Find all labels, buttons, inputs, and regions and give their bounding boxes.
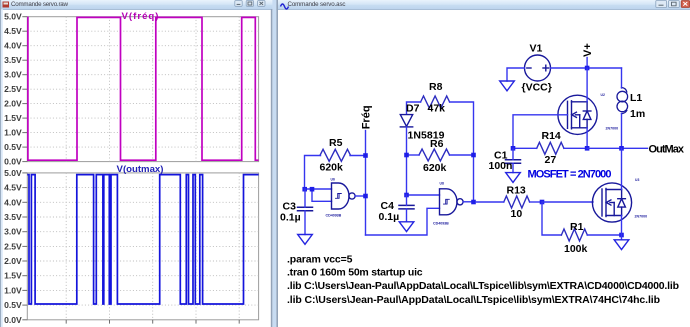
wire: C4 node to gate2 input — [407, 194, 440, 196]
junction C4 node — [404, 193, 409, 198]
pane 2 x axis ticks — [66, 320, 239, 324]
junction R6 right — [471, 153, 476, 158]
svg-text:1.0V: 1.0V — [4, 285, 22, 295]
op-amp U8 nand gate CD4093B — [440, 189, 464, 215]
wire: down to R1 — [542, 202, 561, 235]
diode D7 1N5819 — [400, 115, 412, 127]
junction C1/R14 — [511, 146, 516, 151]
junction R1/source — [619, 233, 624, 238]
svg-text:2.5V: 2.5V — [4, 241, 22, 251]
wire: R13 left lead — [476, 201, 504, 203]
svg-text:2.0V: 2.0V — [4, 99, 22, 109]
svg-text:0.0V: 0.0V — [4, 157, 22, 167]
svg-text:5.0V: 5.0V — [4, 168, 22, 178]
svg-text:U2: U2 — [601, 93, 605, 97]
wire: V+ rail — [551, 67, 622, 69]
svg-text:CD4093B: CD4093B — [326, 214, 342, 218]
op-amp U6 nand gate CD4093B — [332, 183, 356, 209]
svg-text:100n: 100n — [489, 160, 513, 172]
schematic window background — [278, 0, 690, 327]
junction Freq/R5 — [363, 153, 368, 158]
svg-text:4.5V: 4.5V — [4, 183, 22, 193]
resistor R1 — [561, 229, 587, 241]
svg-text:U3: U3 — [635, 178, 639, 182]
ground (V1) — [500, 81, 515, 91]
ground (C4) — [399, 222, 414, 232]
wire: D7 to R6 node — [406, 127, 408, 195]
svg-text:Fréq: Fréq — [360, 105, 372, 129]
svg-text:1.5V: 1.5V — [4, 271, 22, 281]
svg-text:10: 10 — [511, 208, 523, 220]
wire: gate1 output lead — [355, 195, 365, 197]
wire: to MOSFET U3 gate — [542, 201, 593, 203]
junction node A2 — [310, 187, 315, 192]
waveform window right border — [271, 9, 273, 327]
inductor L1 — [617, 88, 628, 114]
ground (C1) — [506, 173, 521, 183]
pane 1 y axis labels — [4, 12, 22, 167]
resistor R14 — [537, 142, 564, 154]
svg-text:1.0V: 1.0V — [4, 128, 22, 138]
wire: C3 bottom — [304, 211, 306, 235]
svg-text:V1: V1 — [530, 43, 543, 55]
waveform window title bar — [0, 0, 277, 9]
svg-text:2N7000: 2N7000 — [606, 127, 619, 131]
wire: U3 drain — [621, 148, 623, 189]
capacitor C4 — [399, 205, 414, 209]
svg-text:3.5V: 3.5V — [4, 55, 22, 65]
junction node A — [302, 187, 307, 192]
svg-text:1m: 1m — [630, 108, 645, 120]
svg-text:L1: L1 — [630, 92, 642, 104]
ground (lower right) — [614, 240, 629, 250]
svg-text:.lib C:\Users\Jean-Paul\AppDat: .lib C:\Users\Jean-Paul\AppData\Local\LT… — [287, 280, 679, 292]
wire: C1 top — [512, 148, 514, 159]
transistor U2 upper MOSFET 2N7000 — [558, 95, 597, 134]
wire: C1 bottom — [512, 163, 514, 172]
svg-text:3.5V: 3.5V — [4, 212, 22, 222]
svg-text:620k: 620k — [320, 162, 344, 174]
svg-text:R14: R14 — [542, 130, 561, 142]
svg-text:0.0V: 0.0V — [4, 315, 22, 325]
svg-text:{VCC}: {VCC} — [522, 81, 552, 93]
svg-text:R6: R6 — [430, 138, 444, 150]
svg-text:R8: R8 — [429, 81, 443, 93]
transistor U3 lower MOSFET 2N7000 — [592, 183, 631, 222]
waveform window left border — [0, 0, 1, 327]
wire: R8 left lead + D7 column top — [407, 102, 421, 114]
svg-text:OutMax: OutMax — [649, 143, 685, 155]
resistor R8 — [421, 96, 450, 108]
svg-text:2.0V: 2.0V — [4, 256, 22, 266]
svg-text:Commande servo.asc: Commande servo.asc — [288, 1, 346, 8]
junction gate1 output — [363, 194, 368, 199]
pane 1 y axis ticks — [22, 17, 27, 162]
wire: gate1 output loop bottom — [366, 208, 440, 235]
svg-text:C3: C3 — [283, 201, 297, 213]
svg-text:R1: R1 — [570, 221, 584, 233]
svg-text:0.1µ: 0.1µ — [280, 212, 301, 224]
schematic window buttons — [656, 1, 680, 8]
wire: R1 right lead — [587, 234, 621, 236]
wire: OutMax row — [587, 147, 647, 149]
svg-text:3.0V: 3.0V — [4, 70, 22, 80]
svg-text:D7: D7 — [406, 102, 420, 114]
resistor R5 — [320, 149, 351, 161]
svg-text:0.5V: 0.5V — [4, 142, 22, 152]
wire: loop to gate1 lower input — [312, 189, 332, 201]
pane 2 trace V(outmax) — [27, 175, 258, 304]
svg-text:Commande servo.raw: Commande servo.raw — [11, 1, 69, 8]
svg-text:V+: V+ — [582, 43, 594, 57]
schematic window icon — [281, 4, 289, 9]
wire: U2 gate — [513, 115, 568, 149]
waveform window icon — [3, 2, 10, 8]
svg-text:4.0V: 4.0V — [4, 197, 22, 207]
wire: gate2 output lead — [463, 201, 473, 203]
svg-text:4.5V: 4.5V — [4, 26, 22, 36]
wire: V+ stem — [586, 58, 588, 69]
wire: C4 bottom — [406, 209, 408, 222]
pane 1 trace V(freq) — [27, 17, 258, 160]
svg-text:.param vcc=5: .param vcc=5 — [287, 253, 353, 265]
pane 2 horizontal gridlines — [27, 188, 258, 306]
svg-text:4.0V: 4.0V — [4, 41, 22, 51]
svg-text:V(fréq): V(fréq) — [122, 11, 159, 22]
svg-text:MOSFET = 2N7000: MOSFET = 2N7000 — [528, 168, 612, 180]
pane 1 vertical gridlines — [66, 17, 239, 162]
svg-text:620k: 620k — [423, 162, 447, 174]
svg-text:0.1µ: 0.1µ — [379, 211, 400, 223]
junction R13 right — [540, 200, 545, 205]
pane 2 y axis ticks — [22, 173, 27, 320]
svg-text:3.0V: 3.0V — [4, 227, 22, 237]
voltage source V1 — [525, 55, 551, 81]
capacitor C1 — [506, 160, 521, 164]
wire: L1 bottom lead — [621, 114, 623, 149]
svg-text:100k: 100k — [564, 243, 588, 255]
pane 2 plot frame — [27, 173, 258, 320]
pane 1 plot frame — [27, 17, 258, 162]
svg-text:5.0V: 5.0V — [4, 12, 22, 22]
wire: R14 right lead — [564, 147, 587, 149]
svg-text:47k: 47k — [428, 103, 446, 115]
junction U2 source/OutMax — [585, 146, 590, 151]
capacitor C3 — [298, 207, 313, 211]
wire: R5 left lead + drop — [305, 156, 321, 190]
junction V+ — [585, 66, 590, 71]
svg-text:27: 27 — [545, 154, 557, 166]
wire: C3 top — [304, 189, 306, 207]
wire: R5 right lead — [350, 155, 366, 157]
wire: R6 left lead — [407, 154, 420, 156]
wire: U2 drain — [586, 68, 588, 102]
svg-text:U6: U6 — [331, 177, 335, 181]
wire: R8 right lead + right column — [450, 102, 474, 202]
waveform window background — [0, 0, 277, 327]
wire: V1 minus to ground — [507, 68, 525, 81]
wire: to ground lower right — [621, 235, 623, 240]
wire: node A row to gate1 input — [305, 188, 332, 190]
svg-text:.tran 0 160m 50m startup uic: .tran 0 160m 50m startup uic — [287, 267, 423, 279]
resistor R13 — [504, 196, 530, 208]
svg-text:U8: U8 — [440, 181, 444, 185]
pane 1 horizontal gridlines — [27, 31, 258, 147]
ground (C3) — [298, 235, 313, 245]
svg-text:V(outmax): V(outmax) — [117, 164, 164, 175]
wire: Freq column — [365, 131, 367, 236]
wire: R13 right lead — [530, 201, 542, 203]
wire: R6 right lead — [450, 154, 474, 156]
schematic window title bar — [278, 0, 690, 9]
svg-text:2N7000: 2N7000 — [635, 215, 648, 219]
svg-text:R5: R5 — [329, 137, 343, 149]
svg-text:CD4093B: CD4093B — [433, 221, 449, 225]
junction gate2 output — [471, 200, 476, 205]
wire: U3 source — [621, 216, 623, 236]
pane 2 y axis labels — [4, 168, 22, 325]
svg-text:1.5V: 1.5V — [4, 113, 22, 123]
junction D7/R6 — [404, 153, 409, 158]
svg-text:.lib C:\Users\Jean-Paul\AppDat: .lib C:\Users\Jean-Paul\AppData\Local\LT… — [287, 294, 660, 306]
pane 2 vertical gridlines — [66, 173, 239, 320]
waveform window buttons — [235, 1, 265, 7]
wire: C4 top — [406, 195, 408, 205]
svg-text:R13: R13 — [507, 185, 526, 197]
resistor R6 — [419, 149, 450, 161]
svg-text:2.5V: 2.5V — [4, 84, 22, 94]
wire: U2 source — [586, 128, 588, 149]
wire: R14 left lead — [513, 147, 537, 149]
svg-text:C4: C4 — [381, 200, 395, 212]
junction L1/drain — [619, 146, 624, 151]
wire: L1 top lead — [621, 68, 623, 88]
svg-text:0.5V: 0.5V — [4, 300, 22, 310]
